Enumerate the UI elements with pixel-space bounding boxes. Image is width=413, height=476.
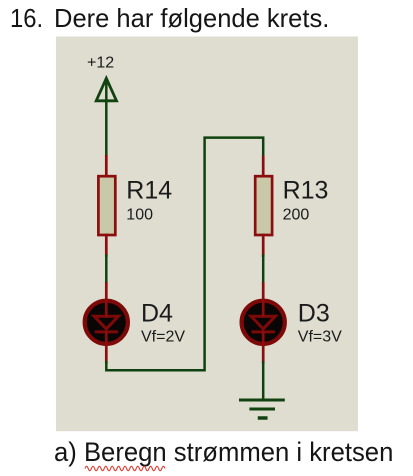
pin D4 anode (top) bbox=[105, 284, 108, 317]
wire D3 to ground bbox=[262, 362, 265, 399]
resistor R14 bbox=[98, 176, 115, 235]
svg-text:Vf=3V: Vf=3V bbox=[298, 329, 342, 346]
svg-text:100: 100 bbox=[126, 207, 153, 224]
pin D3 anode (top) bbox=[262, 284, 265, 317]
schematic beige background bbox=[56, 37, 358, 432]
LED D3 bbox=[242, 301, 285, 344]
pin R14 top bbox=[105, 156, 108, 177]
pin D4 cathode (bottom) bbox=[105, 332, 108, 362]
ground bbox=[241, 400, 284, 418]
pin R14 bottom bbox=[105, 235, 108, 256]
svg-text:D3: D3 bbox=[298, 299, 330, 327]
svg-text:R13: R13 bbox=[283, 177, 329, 205]
LED D4 bbox=[85, 301, 128, 344]
wire D4 bottom corner to mid riser to R13 top bbox=[106, 138, 263, 371]
red spellcheck squiggle under Beregn bbox=[85, 466, 165, 470]
pin D3 cathode (bottom) bbox=[262, 332, 265, 362]
svg-text:200: 200 bbox=[283, 207, 310, 224]
title text "16. Dere har følgende krets." bbox=[10, 5, 43, 31]
resistor R13 bbox=[255, 176, 272, 235]
svg-text:D4: D4 bbox=[141, 299, 173, 327]
wire R13 to D3 bbox=[262, 256, 265, 284]
wire R14 to D4 bbox=[105, 256, 108, 284]
power +12 arrow symbol bbox=[96, 78, 116, 156]
question text a) Beregn strømmen i kretsen bbox=[54, 439, 393, 466]
pin R13 bottom bbox=[262, 235, 265, 256]
svg-text:+12: +12 bbox=[87, 54, 114, 71]
pin R13 top bbox=[262, 157, 265, 177]
svg-text:R14: R14 bbox=[126, 177, 172, 205]
svg-text:Vf=2V: Vf=2V bbox=[141, 329, 185, 346]
